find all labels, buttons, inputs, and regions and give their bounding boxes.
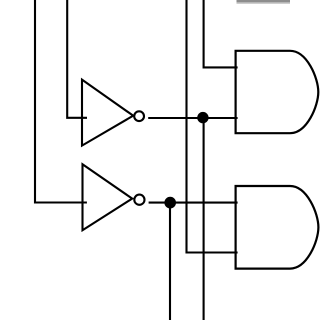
wire: input net B vertical from top, into inverter U1 (67, 0, 87, 118)
wire: inverter U1 output to AND U3 lower input (148, 117, 237, 119)
wire: vertical net from top to AND gate U4 lower input (187, 0, 238, 253)
node junction dot on U2 output (164, 197, 176, 209)
inverter U2 (83, 164, 145, 230)
node junction dot on U1 output (197, 112, 208, 123)
AND gate U4 (236, 186, 319, 269)
wire: branch from junction down to bottom edge (203, 118, 205, 320)
inverter U1 (82, 80, 144, 146)
AND gate U3 (236, 51, 319, 133)
wire: inverter U2 output to AND U4 upper input (149, 202, 238, 204)
wire: vertical net from top to AND gate U3 upper input (204, 0, 238, 67)
grey clipped label box remnant at top (237, 0, 291, 2)
wire: input net A vertical from top, into inverter U2 (35, 0, 87, 203)
wire: branch from junction down to bottom edge (169, 203, 171, 320)
